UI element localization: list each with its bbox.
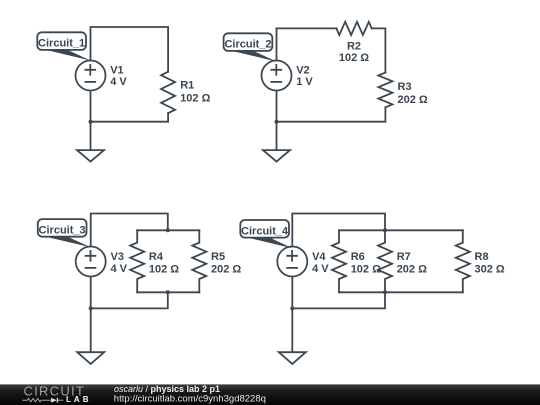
voltage source V1 <box>76 61 106 91</box>
resistor R1 <box>161 72 175 114</box>
label Circuit_2 <box>224 33 277 61</box>
svg-text:V1: V1 <box>110 64 123 76</box>
svg-text:http://circuitlab.com/c9ynh3gd: http://circuitlab.com/c9ynh3gd8228q <box>114 393 266 404</box>
svg-text:102 Ω: 102 Ω <box>351 263 381 275</box>
node junction top rail circuit 3 <box>166 228 170 232</box>
label V4 value <box>312 251 329 275</box>
svg-text:Circuit_1: Circuit_1 <box>38 38 85 50</box>
svg-text:Circuit_4: Circuit_4 <box>241 225 289 237</box>
resistor R8 with leads <box>456 230 470 292</box>
resistor R4 with leads <box>130 230 144 292</box>
svg-text:R2: R2 <box>347 40 361 52</box>
label V3 value <box>111 251 128 275</box>
svg-text:202 Ω: 202 Ω <box>211 263 241 275</box>
voltage source V3 <box>76 247 106 277</box>
wire top of circuit 2 <box>277 28 337 60</box>
svg-text:R5: R5 <box>211 251 225 263</box>
resistor R2 <box>336 22 371 35</box>
node junction bottom rail circuit 4 <box>383 290 387 294</box>
wire bottom rail circuit 4 <box>339 291 463 293</box>
label R5 value <box>211 251 241 276</box>
wire bottom of circuit 4 <box>292 292 385 308</box>
svg-text:R3: R3 <box>398 81 412 93</box>
svg-text:R7: R7 <box>397 251 411 263</box>
wire voltage source V1 to ground node <box>90 90 92 150</box>
resistor R5 with leads <box>192 230 206 292</box>
wire top of circuit 1 <box>91 27 169 72</box>
svg-text:R4: R4 <box>149 251 164 263</box>
node junction circuit 2 <box>275 120 279 124</box>
wire right bottom of circuit 1 <box>91 113 169 122</box>
voltage source V2 <box>262 61 292 91</box>
node junction top rail circuit 4 <box>383 228 387 232</box>
node junction circuit 1 <box>89 120 93 124</box>
svg-text:202 Ω: 202 Ω <box>397 263 427 275</box>
node junction circuit 4 <box>290 306 294 310</box>
node junction circuit 3 <box>89 306 93 310</box>
ground circuit 2 <box>263 150 290 162</box>
resistor R7 with leads <box>378 230 392 292</box>
svg-text:4 V: 4 V <box>110 76 127 88</box>
wire top of circuit 4 <box>292 214 385 247</box>
ground circuit 3 <box>77 352 104 364</box>
svg-text:1 V: 1 V <box>296 76 313 88</box>
resistor R6 with leads <box>332 230 346 292</box>
footer logo schematic glyph <box>22 398 63 403</box>
svg-text:4 V: 4 V <box>312 263 329 275</box>
svg-text:302 Ω: 302 Ω <box>475 263 505 275</box>
label R3 value <box>398 81 428 106</box>
label R6 value <box>351 251 381 276</box>
voltage source V4 <box>277 247 307 277</box>
svg-text:Circuit_2: Circuit_2 <box>224 39 271 51</box>
svg-text:102 Ω: 102 Ω <box>339 52 369 64</box>
wire R2 to R3 <box>372 28 386 72</box>
svg-text:R1: R1 <box>180 80 194 92</box>
label R4 value <box>149 251 179 276</box>
wire top rail circuit 3 <box>137 229 199 231</box>
svg-text:102 Ω: 102 Ω <box>149 263 179 275</box>
wire voltage source V4 to ground node <box>291 276 293 352</box>
label Circuit_3 <box>38 219 91 247</box>
svg-text:102 Ω: 102 Ω <box>180 93 210 105</box>
wire voltage source V2 to ground node <box>276 90 278 150</box>
svg-text:V4: V4 <box>312 251 326 263</box>
svg-text:202 Ω: 202 Ω <box>398 94 428 106</box>
wire top of circuit 3 <box>91 214 168 247</box>
ground circuit 1 <box>77 150 104 162</box>
ground circuit 4 <box>279 352 306 364</box>
label Circuit_1 <box>37 32 90 60</box>
svg-text:R6: R6 <box>351 251 365 263</box>
wire top rail circuit 4 <box>339 229 463 231</box>
label R1 value <box>180 80 210 105</box>
label R8 value <box>475 251 505 276</box>
wire bottom of circuit 3 <box>91 292 168 308</box>
svg-text:R8: R8 <box>475 251 489 263</box>
label R2 value <box>339 40 369 64</box>
label Circuit_4 <box>240 220 292 248</box>
svg-text:V2: V2 <box>296 64 309 76</box>
svg-text:Circuit_3: Circuit_3 <box>39 224 86 236</box>
svg-text:LAB: LAB <box>66 395 90 404</box>
label V2 value <box>296 64 313 87</box>
svg-text:4 V: 4 V <box>111 263 128 275</box>
wire bottom of circuit 2 <box>277 107 386 121</box>
footer bar <box>0 384 540 405</box>
node junction bottom rail circuit 3 <box>166 290 170 294</box>
wire voltage source V3 to ground node <box>90 276 92 352</box>
wire bottom rail circuit 3 <box>137 291 199 293</box>
svg-text:V3: V3 <box>111 251 124 263</box>
label V1 value <box>110 64 127 87</box>
resistor R3 <box>378 73 392 108</box>
label R7 value <box>397 251 427 276</box>
